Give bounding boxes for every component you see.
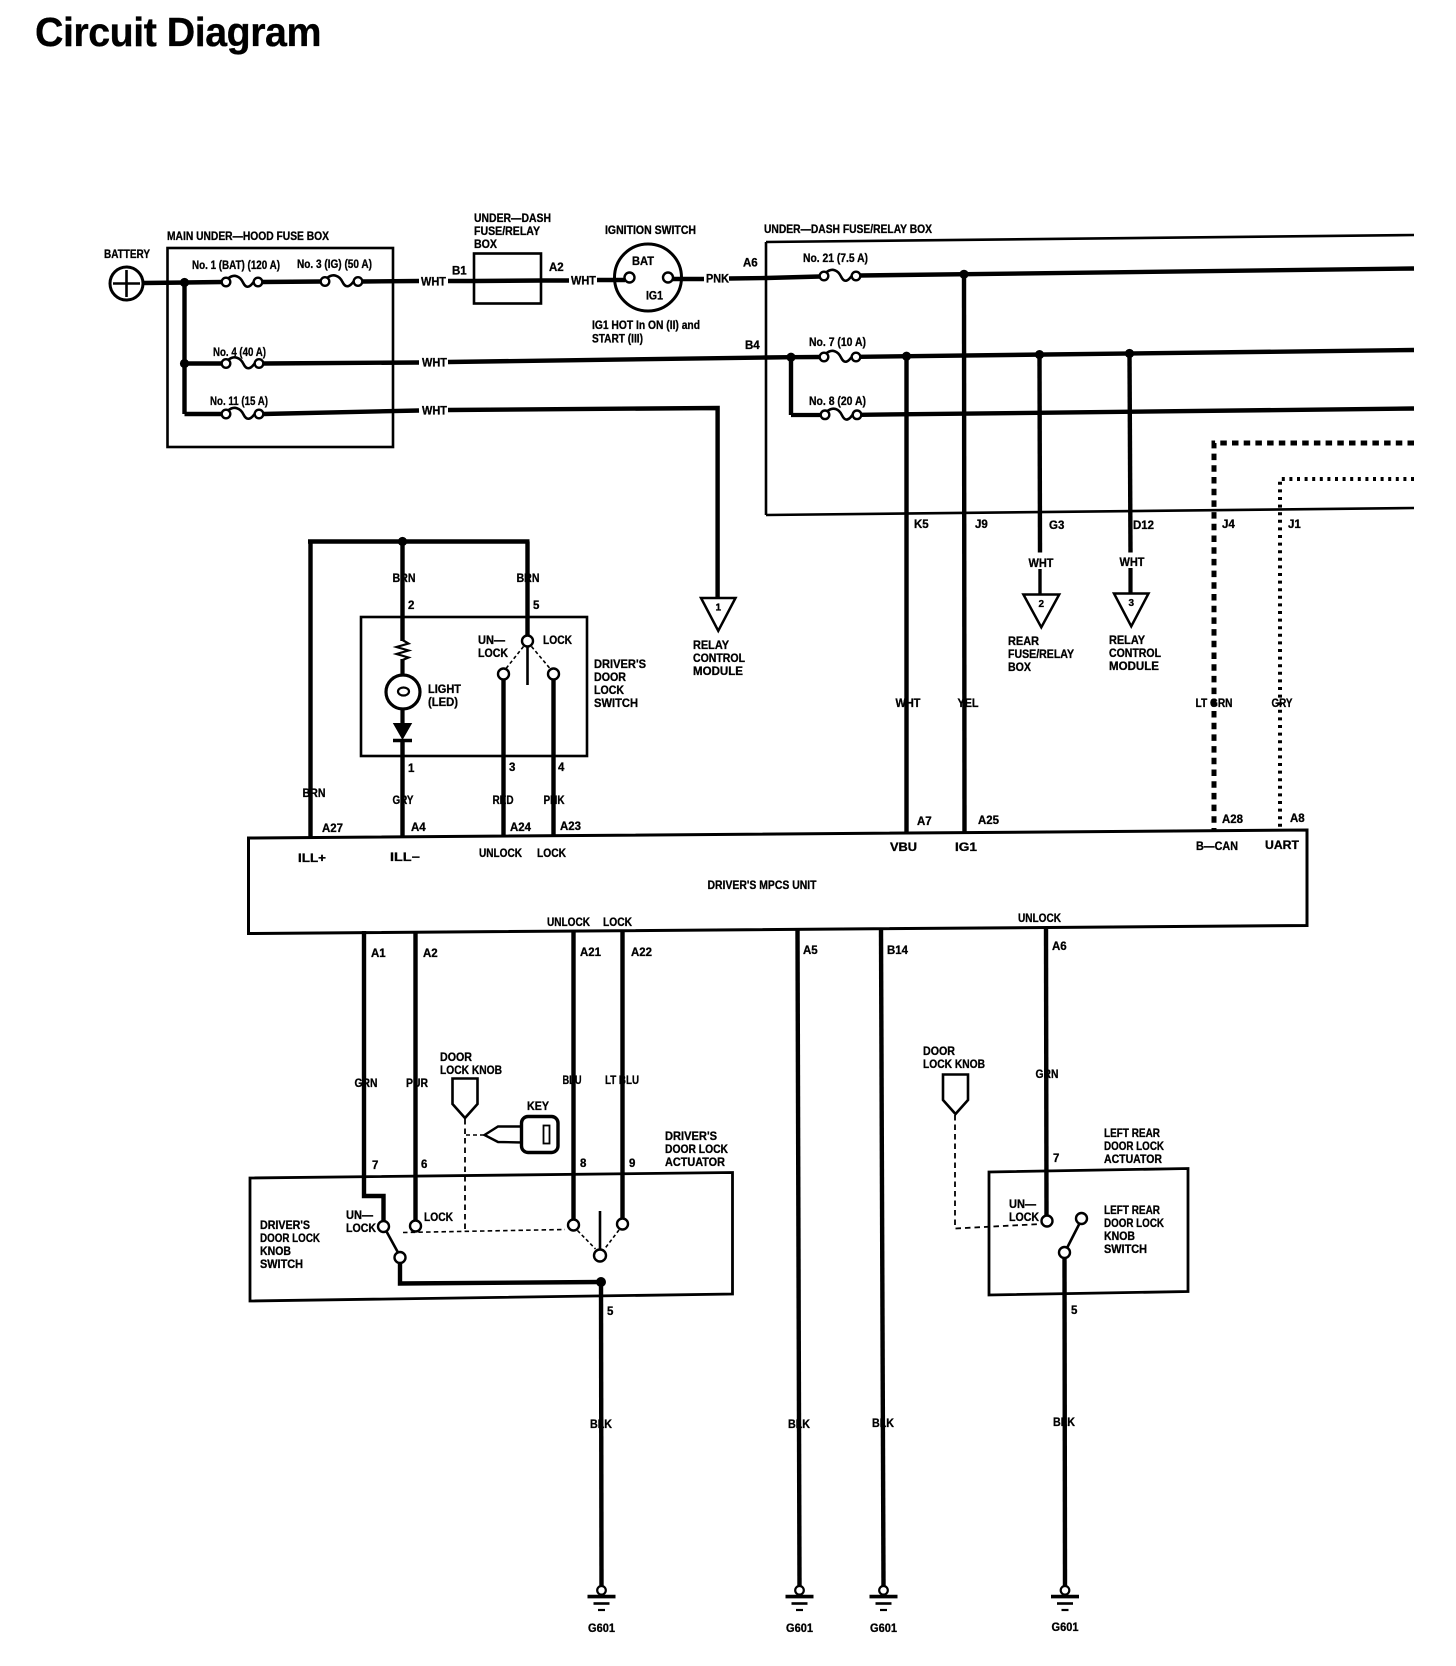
svg-text:A8: A8 bbox=[1290, 813, 1305, 825]
node K5 branch junction bbox=[902, 352, 911, 361]
wire WHT to ignition switch bbox=[597, 278, 625, 282]
svg-text:DRIVER'S: DRIVER'S bbox=[594, 659, 646, 671]
svg-text:6: 6 bbox=[421, 1159, 427, 1171]
svg-text:5: 5 bbox=[1071, 1305, 1078, 1317]
svg-text:SWITCH: SWITCH bbox=[594, 698, 638, 710]
svg-text:UNLOCK: UNLOCK bbox=[547, 917, 591, 929]
svg-text:J9: J9 bbox=[975, 519, 988, 531]
svg-text:DOOR: DOOR bbox=[440, 1052, 473, 1064]
svg-text:UNDER—DASH: UNDER—DASH bbox=[474, 213, 551, 225]
key cylinder LOCK contact (9) bbox=[617, 1219, 628, 1230]
node J9 branch junction bbox=[959, 270, 968, 279]
wire pin5 down (driver) bbox=[599, 1282, 604, 1586]
svg-text:BLK: BLK bbox=[872, 1418, 895, 1430]
contact LOCK (pin4) bbox=[548, 669, 559, 680]
svg-text:UN—: UN— bbox=[478, 635, 505, 647]
wire battery bus vertical bbox=[182, 283, 186, 415]
svg-text:G601: G601 bbox=[588, 1623, 616, 1635]
svg-text:PUR: PUR bbox=[406, 1078, 429, 1090]
svg-text:BLK: BLK bbox=[1053, 1417, 1076, 1429]
node No.4 branch junction bbox=[180, 359, 189, 368]
svg-text:FUSE/RELAY: FUSE/RELAY bbox=[1008, 649, 1074, 661]
svg-text:DOOR LOCK: DOOR LOCK bbox=[665, 1144, 729, 1156]
svg-text:LOCK: LOCK bbox=[543, 635, 573, 647]
dashed lever key cylinder right bbox=[605, 1230, 620, 1249]
svg-text:VBU: VBU bbox=[890, 842, 917, 854]
svg-text:RELAY: RELAY bbox=[693, 640, 729, 652]
svg-text:REAR: REAR bbox=[1008, 636, 1040, 648]
wire A22 LT BLU bbox=[620, 930, 624, 1219]
svg-text:5: 5 bbox=[533, 600, 540, 612]
ignition switch bbox=[605, 225, 696, 311]
svg-text:KNOB: KNOB bbox=[260, 1246, 291, 1258]
battery bbox=[104, 249, 150, 300]
wire J1 dotted UART bbox=[1280, 479, 1414, 831]
svg-text:A22: A22 bbox=[631, 947, 652, 959]
fuse No.11 (15 A) bbox=[222, 408, 264, 419]
wire fuse No.4 to WHT bbox=[263, 363, 419, 364]
svg-text:A6: A6 bbox=[1052, 941, 1067, 953]
svg-text:No. 21 (7.5 A): No. 21 (7.5 A) bbox=[803, 253, 868, 265]
key cylinder UNLOCK contact (8) bbox=[568, 1220, 579, 1231]
svg-text:J1: J1 bbox=[1288, 519, 1301, 531]
fuse No.3 (IG) (50 A) bbox=[321, 275, 363, 286]
svg-text:IG1 HOT In ON (II) and: IG1 HOT In ON (II) and bbox=[592, 320, 700, 332]
wire A1 GRN bbox=[364, 931, 384, 1221]
svg-text:LOCK: LOCK bbox=[1009, 1212, 1040, 1224]
svg-text:FUSE/RELAY: FUSE/RELAY bbox=[474, 226, 540, 238]
MPCS top pin labels bbox=[322, 813, 1305, 835]
ground G601 bbox=[870, 1586, 898, 1635]
label left rear door lock actuator bbox=[1104, 1128, 1165, 1166]
key cylinder common contact bbox=[594, 1250, 606, 1262]
wire fuse No.3 to WHT label bbox=[362, 279, 419, 284]
label relay control module 3 bbox=[1109, 635, 1161, 673]
label rear fuse/relay box bbox=[1008, 636, 1074, 674]
label driver door lock actuator bbox=[665, 1131, 729, 1169]
svg-text:K5: K5 bbox=[914, 519, 929, 531]
node No.8 branch junction bbox=[786, 353, 795, 362]
svg-text:A23: A23 bbox=[560, 821, 581, 833]
fuse No.21 (7.5 A) bbox=[820, 270, 861, 281]
wire BRN bus horizontal bbox=[308, 539, 530, 544]
under-dash fuse/relay box (pass-through) bbox=[474, 213, 551, 304]
fuse No.8 (20 A) bbox=[821, 409, 862, 420]
wire G3 vertical bbox=[1037, 355, 1042, 553]
svg-text:RELAY: RELAY bbox=[1109, 635, 1145, 647]
wire fuse No.21 rightward bbox=[860, 269, 1414, 276]
node battery bus junction bbox=[180, 278, 189, 287]
rear knob switch lever bbox=[1068, 1224, 1080, 1248]
svg-text:2: 2 bbox=[408, 600, 414, 612]
svg-text:RED: RED bbox=[493, 795, 514, 807]
left rear door lock actuator box bbox=[989, 1169, 1188, 1296]
wire pin2 vertical (BRN) bbox=[400, 542, 404, 642]
svg-text:UN—: UN— bbox=[346, 1210, 373, 1222]
svg-text:4: 4 bbox=[558, 762, 565, 774]
driver door lock actuator box bbox=[250, 1173, 733, 1302]
svg-text:WHT: WHT bbox=[571, 276, 596, 288]
svg-text:7: 7 bbox=[372, 1160, 378, 1172]
MPCS top inner labels bbox=[298, 840, 1299, 865]
svg-text:DOOR: DOOR bbox=[923, 1046, 956, 1058]
svg-text:A4: A4 bbox=[411, 822, 426, 834]
wire pin1 out of switch bbox=[400, 741, 404, 838]
wire common to ground bus bbox=[400, 1262, 601, 1284]
svg-text:GRN: GRN bbox=[355, 1078, 378, 1090]
svg-text:7: 7 bbox=[1053, 1153, 1059, 1165]
svg-text:9: 9 bbox=[629, 1158, 635, 1170]
svg-text:LOCK KNOB: LOCK KNOB bbox=[440, 1065, 502, 1077]
dashed knob link bbox=[464, 1119, 466, 1232]
svg-text:ILL−: ILL− bbox=[390, 852, 420, 864]
svg-text:1: 1 bbox=[408, 763, 415, 775]
svg-text:LOCK KNOB: LOCK KNOB bbox=[923, 1059, 985, 1071]
svg-text:LEFT REAR: LEFT REAR bbox=[1104, 1205, 1161, 1217]
svg-text:GRY: GRY bbox=[1272, 698, 1293, 710]
svg-text:8: 8 bbox=[580, 1158, 587, 1170]
svg-text:START (III): START (III) bbox=[592, 334, 643, 346]
wire fuse No.1 to fuse No.3 bbox=[262, 279, 321, 284]
svg-text:DRIVER'S: DRIVER'S bbox=[260, 1220, 310, 1232]
svg-text:PNK: PNK bbox=[544, 795, 566, 807]
wire battery to fuse box bbox=[143, 280, 187, 285]
svg-text:No. 1 (BAT) (120 A): No. 1 (BAT) (120 A) bbox=[192, 260, 280, 272]
svg-text:No. 8 (20 A): No. 8 (20 A) bbox=[809, 396, 866, 408]
wire PNK to node A6 bbox=[729, 276, 766, 281]
svg-text:ILL+: ILL+ bbox=[298, 853, 326, 865]
svg-text:DOOR LOCK: DOOR LOCK bbox=[260, 1233, 321, 1245]
dashed knob link (left rear) bbox=[955, 1115, 1041, 1229]
svg-text:A2: A2 bbox=[423, 948, 438, 960]
wire fuse No.8 rightward bbox=[861, 409, 1414, 415]
wire WHT to node B4 bbox=[448, 358, 766, 363]
wire LED to diode bbox=[400, 709, 404, 725]
knob switch common contact bbox=[395, 1252, 406, 1263]
svg-text:BOX: BOX bbox=[474, 239, 497, 251]
wire A21 BLU bbox=[571, 930, 575, 1220]
rear knob switch common contact bbox=[1059, 1247, 1070, 1258]
svg-text:LT GRN: LT GRN bbox=[1196, 698, 1233, 710]
wire WHT to under-dash box, node B1 bbox=[448, 279, 474, 283]
wire A6 to fuse No.21 bbox=[766, 277, 820, 279]
fuse No.7 (10 A) bbox=[820, 351, 861, 362]
lamp LIGHT (LED) bbox=[386, 675, 420, 709]
svg-text:BAT: BAT bbox=[632, 256, 654, 268]
wire fuse No.11 to WHT bbox=[263, 411, 419, 415]
wire B14 BLK bbox=[881, 930, 884, 1587]
svg-text:D12: D12 bbox=[1133, 520, 1154, 532]
svg-text:B1: B1 bbox=[452, 266, 467, 278]
svg-text:UNLOCK: UNLOCK bbox=[479, 848, 523, 860]
resistor (illumination) bbox=[397, 640, 409, 660]
wire D12 vertical bbox=[1130, 354, 1131, 553]
fuse No.4 (40 A) bbox=[222, 357, 264, 368]
wire J9 vertical bbox=[962, 274, 967, 834]
svg-text:G601: G601 bbox=[1052, 1622, 1080, 1634]
svg-text:WHT: WHT bbox=[1120, 557, 1145, 569]
contact UNLOCK (pin3) bbox=[498, 669, 509, 680]
svg-text:YEL: YEL bbox=[958, 698, 979, 710]
wire ignition to PNK bbox=[673, 277, 704, 281]
switch common contact (pin5) bbox=[522, 636, 533, 647]
svg-text:G601: G601 bbox=[870, 1623, 898, 1635]
label left rear door lock knob switch bbox=[1104, 1205, 1165, 1256]
svg-text:LOCK: LOCK bbox=[603, 917, 633, 929]
svg-text:LIGHT: LIGHT bbox=[428, 684, 461, 696]
wire to fuse No.7 bbox=[791, 355, 820, 360]
svg-text:LOCK: LOCK bbox=[537, 848, 567, 860]
connector triangle 2 to rear fuse/relay box bbox=[1023, 595, 1059, 628]
label driver door lock switch bbox=[594, 659, 646, 710]
svg-text:A28: A28 bbox=[1222, 814, 1244, 826]
driver door lock switch box bbox=[361, 617, 587, 756]
svg-text:A27: A27 bbox=[322, 823, 343, 835]
svg-text:BRN: BRN bbox=[303, 788, 326, 800]
svg-text:BLK: BLK bbox=[590, 1419, 613, 1431]
wire ILL+ vertical (BRN) bbox=[308, 542, 312, 838]
node ground junction bbox=[596, 1277, 606, 1287]
diode (LED) bbox=[393, 724, 412, 741]
svg-text:ACTUATOR: ACTUATOR bbox=[1104, 1154, 1163, 1166]
svg-text:WHT: WHT bbox=[1029, 558, 1054, 570]
wire to fuse No.1 bbox=[185, 280, 223, 285]
svg-text:ACTUATOR: ACTUATOR bbox=[665, 1157, 726, 1169]
svg-text:UART: UART bbox=[1265, 840, 1299, 852]
svg-text:3: 3 bbox=[1128, 598, 1134, 609]
wire G3 to triangle 2 bbox=[1038, 569, 1041, 596]
svg-text:B4: B4 bbox=[745, 340, 760, 352]
svg-text:No. 4 (40 A): No. 4 (40 A) bbox=[213, 347, 266, 359]
node D12 branch junction bbox=[1125, 349, 1134, 358]
svg-text:MODULE: MODULE bbox=[1109, 661, 1159, 673]
svg-text:2: 2 bbox=[1039, 599, 1045, 610]
svg-text:BLK: BLK bbox=[788, 1419, 811, 1431]
svg-text:PNK: PNK bbox=[706, 274, 730, 286]
svg-text:KEY: KEY bbox=[527, 1101, 549, 1113]
wire D12 to triangle 3 bbox=[1128, 568, 1132, 595]
dashed lever to UNLOCK bbox=[506, 647, 524, 669]
svg-text:WHT: WHT bbox=[421, 277, 446, 289]
svg-text:A5: A5 bbox=[803, 945, 818, 957]
wire drop to fuse No.8 bbox=[789, 357, 793, 415]
svg-text:3: 3 bbox=[509, 762, 515, 774]
wire K5 vertical bbox=[904, 356, 908, 834]
key cylinder stem bbox=[599, 1211, 602, 1250]
MPCS bottom inner labels bbox=[547, 913, 1062, 929]
ground G601 bbox=[786, 1586, 814, 1635]
node G3 branch junction bbox=[1035, 350, 1044, 359]
ground G601 bbox=[588, 1586, 616, 1635]
svg-text:CONTROL: CONTROL bbox=[1109, 648, 1161, 660]
wire pin3 to MPCS bbox=[501, 680, 505, 838]
wire A2 PUR bbox=[413, 931, 417, 1221]
dashed gang link bbox=[403, 1230, 565, 1233]
svg-text:G601: G601 bbox=[786, 1623, 814, 1635]
wire pin5 down (left rear) bbox=[1062, 1258, 1067, 1586]
wire through small box bbox=[474, 278, 541, 283]
dashed lever key cylinder left bbox=[578, 1231, 596, 1250]
svg-text:BRN: BRN bbox=[517, 573, 540, 585]
svg-text:B—CAN: B—CAN bbox=[1196, 841, 1238, 853]
wire WHT to relay control module drop bbox=[448, 408, 718, 599]
key symbol bbox=[485, 1101, 559, 1153]
door lock knob (left rear) bbox=[923, 1046, 985, 1114]
svg-text:DOOR LOCK: DOOR LOCK bbox=[1104, 1141, 1165, 1153]
label driver door lock knob switch bbox=[260, 1220, 321, 1271]
svg-text:G3: G3 bbox=[1049, 520, 1064, 532]
wire common stem bbox=[526, 647, 529, 686]
svg-text:B14: B14 bbox=[887, 945, 909, 957]
wire fuse No.7 rightward bbox=[860, 350, 1414, 357]
driver MPCS unit box bbox=[249, 830, 1308, 934]
svg-text:LOCK: LOCK bbox=[424, 1212, 454, 1224]
connector triangle 3 to relay control module bbox=[1114, 594, 1149, 627]
door lock knob (driver) bbox=[440, 1052, 502, 1118]
svg-text:J4: J4 bbox=[1222, 519, 1235, 531]
wire A5 BLK bbox=[798, 930, 800, 1587]
wire A2 to WHT bbox=[541, 278, 569, 282]
svg-text:A21: A21 bbox=[580, 947, 602, 959]
wire B4 into box bbox=[766, 355, 791, 360]
svg-text:LOCK: LOCK bbox=[594, 685, 625, 697]
svg-text:KNOB: KNOB bbox=[1104, 1231, 1135, 1243]
svg-text:BOX: BOX bbox=[1008, 662, 1031, 674]
wire pin4 to MPCS bbox=[551, 680, 555, 838]
svg-text:MAIN UNDER—HOOD FUSE BOX: MAIN UNDER—HOOD FUSE BOX bbox=[167, 231, 329, 243]
dashed key link bbox=[466, 1134, 486, 1136]
svg-text:BATTERY: BATTERY bbox=[104, 249, 150, 261]
ground G601 bbox=[1051, 1586, 1079, 1634]
knob switch lever bbox=[387, 1232, 399, 1253]
svg-text:No. 3 (IG) (50 A): No. 3 (IG) (50 A) bbox=[297, 259, 372, 271]
svg-text:GRY: GRY bbox=[393, 795, 414, 807]
svg-text:LEFT REAR: LEFT REAR bbox=[1104, 1128, 1161, 1140]
svg-text:A6: A6 bbox=[743, 258, 758, 270]
svg-text:BRN: BRN bbox=[393, 573, 416, 585]
svg-text:A25: A25 bbox=[978, 815, 1000, 827]
under-dash fuse/relay box bbox=[764, 224, 1414, 515]
svg-text:MODULE: MODULE bbox=[693, 666, 743, 678]
svg-text:DRIVER'S MPCS UNIT: DRIVER'S MPCS UNIT bbox=[708, 878, 818, 892]
wire to fuse No.11 bbox=[185, 412, 223, 416]
svg-text:UNLOCK: UNLOCK bbox=[1018, 913, 1062, 925]
svg-text:A7: A7 bbox=[917, 816, 932, 828]
svg-text:WHT: WHT bbox=[422, 406, 447, 418]
svg-text:LOCK: LOCK bbox=[478, 648, 509, 660]
svg-text:LT BLU: LT BLU bbox=[605, 1075, 639, 1087]
label relay control module 1 bbox=[693, 640, 745, 678]
svg-text:Circuit Diagram: Circuit Diagram bbox=[35, 9, 321, 55]
svg-text:WHT: WHT bbox=[896, 698, 921, 710]
svg-text:(LED): (LED) bbox=[428, 697, 458, 709]
fuse No.1 (BAT) (120 A) bbox=[222, 276, 263, 287]
rear knob switch open contact bbox=[1076, 1213, 1087, 1224]
svg-text:1: 1 bbox=[715, 603, 721, 614]
wire resistor to LED bbox=[400, 659, 404, 676]
svg-text:LOCK: LOCK bbox=[346, 1223, 377, 1235]
svg-text:BLU: BLU bbox=[563, 1075, 582, 1087]
svg-text:No. 11 (15 A): No. 11 (15 A) bbox=[210, 396, 268, 408]
wire A6 GRN bbox=[1044, 928, 1049, 1216]
svg-text:DOOR LOCK: DOOR LOCK bbox=[1104, 1218, 1165, 1230]
svg-text:5: 5 bbox=[607, 1306, 614, 1318]
wire to fuse No.4 bbox=[185, 361, 223, 365]
svg-text:UN—: UN— bbox=[1009, 1199, 1036, 1211]
wire pin5 vertical (BRN) bbox=[525, 542, 529, 637]
svg-text:CONTROL: CONTROL bbox=[693, 653, 745, 665]
svg-text:GRN: GRN bbox=[1036, 1069, 1059, 1081]
connector triangle 1 to relay control module bbox=[701, 598, 736, 631]
svg-text:DRIVER'S: DRIVER'S bbox=[665, 1131, 717, 1143]
svg-text:SWITCH: SWITCH bbox=[1104, 1244, 1147, 1256]
svg-text:WHT: WHT bbox=[422, 358, 447, 370]
svg-text:IG1: IG1 bbox=[955, 842, 978, 854]
node BRN junction bbox=[398, 537, 407, 546]
dashed lever to LOCK bbox=[532, 647, 551, 669]
svg-text:IGNITION SWITCH: IGNITION SWITCH bbox=[605, 225, 696, 237]
MPCS bottom pin labels bbox=[371, 941, 1067, 960]
svg-text:DOOR: DOOR bbox=[594, 672, 627, 684]
svg-text:A24: A24 bbox=[510, 822, 532, 834]
svg-text:No. 7 (10 A): No. 7 (10 A) bbox=[809, 337, 866, 349]
wire J4 dashed B-CAN bbox=[1214, 443, 1414, 831]
svg-text:A1: A1 bbox=[371, 948, 386, 960]
svg-text:IG1: IG1 bbox=[646, 291, 664, 303]
svg-text:A2: A2 bbox=[549, 262, 564, 274]
main under-hood fuse box bbox=[167, 231, 393, 447]
svg-text:UNDER—DASH FUSE/RELAY BOX: UNDER—DASH FUSE/RELAY BOX bbox=[764, 224, 932, 236]
svg-text:SWITCH: SWITCH bbox=[260, 1259, 303, 1271]
